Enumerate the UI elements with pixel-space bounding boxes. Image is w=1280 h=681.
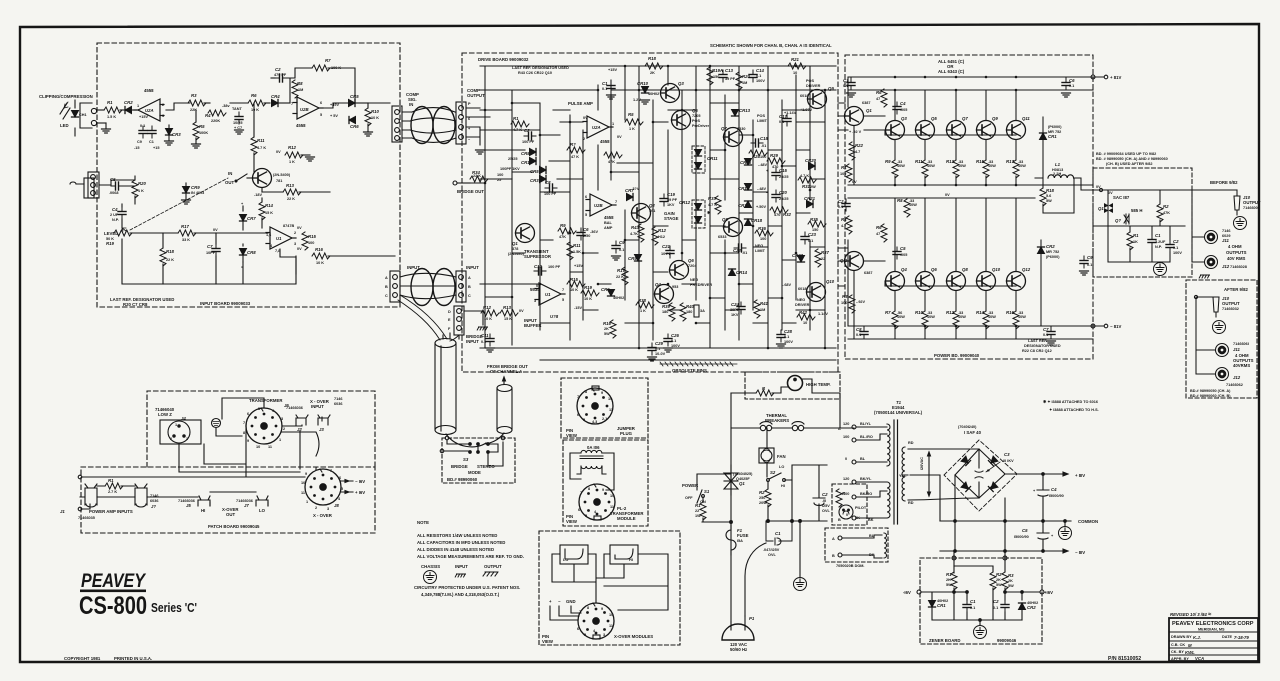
svg-text:(P6000): (P6000) (1048, 125, 1062, 129)
svg-text:R12: R12 (483, 305, 491, 310)
svg-text:OUT: OUT (226, 512, 235, 517)
svg-text:H12: H12 (658, 235, 665, 239)
LEVEL 50K pot R19 (114, 230, 132, 236)
svg-text:7: 7 (243, 421, 245, 425)
svg-text:C9: C9 (619, 240, 625, 245)
svg-text:C: C (385, 294, 388, 298)
svg-text:4: 4 (338, 497, 341, 501)
svg-text:4.7 K: 4.7 K (513, 128, 522, 132)
svg-text:R20 C7 CR8: R20 C7 CR8 (123, 302, 148, 307)
svg-text:RD: RD (908, 501, 914, 505)
svg-text:40H02: 40H02 (648, 92, 659, 96)
svg-text:INPUT: INPUT (311, 404, 324, 409)
svg-text:+15V: +15V (574, 264, 583, 268)
svg-text:TRANSFORMER: TRANSFORMER (249, 398, 283, 403)
svg-text:IN: IN (228, 171, 232, 176)
svg-text:1,6: 1,6 (266, 233, 271, 237)
svg-text:6: 6 (577, 413, 579, 417)
svg-text:+ .92 V: + .92 V (849, 130, 862, 134)
svg-text:100V: 100V (784, 340, 793, 344)
svg-text:R1: R1 (513, 116, 519, 121)
svg-text:180: 180 (686, 310, 692, 314)
svg-text:Q9: Q9 (828, 86, 834, 91)
svg-text:LO: LO (259, 508, 266, 513)
svg-text:FUSE: FUSE (737, 533, 749, 538)
svg-text:22: 22 (821, 257, 825, 261)
svg-text:RD: RD (908, 441, 914, 445)
resistor R17 33K (178, 230, 196, 236)
svg-text:X-OVER MODULES: X-OVER MODULES (614, 634, 653, 639)
svg-text:71466032: 71466032 (1222, 307, 1239, 311)
svg-text:R2: R2 (996, 572, 1002, 577)
svg-text:Q3: Q3 (901, 116, 907, 121)
x-over modules connector circle (578, 603, 614, 639)
svg-text:47 K: 47 K (571, 155, 579, 159)
svg-text:NEG: NEG (690, 278, 698, 282)
svg-text:0.1: 0.1 (1043, 333, 1048, 337)
svg-text:U2A: U2A (145, 108, 154, 113)
svg-text:R17: R17 (1006, 159, 1014, 164)
svg-text:1KV: 1KV (667, 203, 675, 207)
svg-text:5: 5 (320, 113, 322, 117)
svg-text:0: 0 (845, 457, 847, 461)
diode CR6 (349, 117, 356, 124)
cap C5 .0068 (111, 182, 123, 190)
svg-text:100: 100 (843, 435, 849, 439)
svg-text:2 UF: 2 UF (110, 213, 119, 217)
svg-text:2K: 2K (604, 327, 609, 331)
power board dashed outline (845, 55, 1093, 359)
svg-text:470: 470 (772, 165, 778, 169)
svg-text:R22: R22 (855, 143, 863, 148)
svg-text:INPUT BOARD 99009033: INPUT BOARD 99009033 (200, 301, 251, 306)
output gnd example (483, 572, 498, 576)
svg-text:R18: R18 (166, 249, 174, 254)
svg-text:POS: POS (806, 79, 814, 83)
svg-text:CR9: CR9 (191, 185, 200, 190)
resistor R5 1K (625, 119, 643, 125)
primary coil (887, 424, 890, 466)
resistor R14 15K vertical (259, 202, 265, 220)
svg-text:R18: R18 (1046, 188, 1054, 193)
bottom rail wires (122, 239, 296, 284)
svg-text:10W: 10W (897, 315, 905, 319)
svg-text:I5000/90: I5000/90 (1049, 494, 1064, 498)
svg-text:N.P.: N.P. (1155, 245, 1162, 249)
resistor R1 1K (1127, 232, 1133, 250)
comp sig in header (392, 106, 402, 142)
svg-text:5: 5 (584, 633, 586, 637)
svg-text:3: 3 (327, 507, 329, 511)
svg-text:22 K: 22 K (616, 275, 624, 279)
svg-text:5W: 5W (996, 583, 1002, 587)
svg-text:− 81V: − 81V (1110, 324, 1121, 329)
op-amp U2A 4558 (134, 99, 164, 121)
svg-text:470 PF: 470 PF (274, 73, 287, 77)
cap C8 100PF (545, 184, 557, 192)
svg-text:11: 11 (610, 505, 614, 509)
svg-text:R19: R19 (584, 285, 592, 290)
svg-text:Series 'C': Series 'C' (151, 600, 197, 615)
svg-text:0.1: 0.1 (481, 340, 486, 344)
svg-text:2.7 K: 2.7 K (108, 490, 117, 494)
resistor R11 1.5K (567, 242, 573, 260)
svg-text:Q9: Q9 (992, 116, 998, 121)
bridge diode top-left (961, 456, 971, 466)
svg-text:C7: C7 (207, 244, 213, 249)
cap C13 (719, 70, 727, 82)
circled ground psu (794, 578, 807, 591)
svg-text:STAGE: STAGE (664, 216, 679, 221)
op-amp U2B 4558 (293, 97, 323, 119)
svg-text:R17: R17 (617, 268, 625, 273)
svg-text:2: 2 (170, 437, 172, 441)
svg-text:C29: C29 (655, 341, 663, 346)
svg-text:6036: 6036 (150, 499, 158, 503)
svg-text:1: 1 (306, 500, 308, 504)
svg-text:-38v: -38v (222, 104, 230, 108)
svg-text:39 PF: 39 PF (725, 77, 736, 81)
cap C1 .047 125V OVL (766, 521, 792, 545)
svg-text:10W: 10W (958, 164, 966, 168)
circled ground zener (974, 626, 987, 639)
op-amp U1 5534 input buffer (535, 283, 565, 305)
svg-text:KWL: KWL (1185, 650, 1195, 655)
svg-text:C2: C2 (524, 128, 530, 133)
tant cap C7 (235, 112, 243, 124)
diode CR18 (745, 219, 752, 226)
svg-text:R38: R38 (638, 298, 646, 303)
svg-text:CR14: CR14 (736, 270, 748, 275)
svg-text:C4: C4 (1051, 487, 1057, 492)
svg-text:BD.# 98990050 (CH. A): BD.# 98990050 (CH. A) (1190, 389, 1231, 393)
cap C6 0.1 (1062, 78, 1070, 90)
cable curves into switch (446, 433, 504, 447)
svg-text:C9: C9 (1087, 255, 1093, 260)
svg-text:POWER BD. 99009040: POWER BD. 99009040 (934, 353, 980, 358)
resistor R2 2K 5W (990, 572, 996, 590)
svg-text:R1: R1 (841, 165, 847, 170)
svg-text:R13: R13 (286, 183, 294, 188)
svg-text:Q10: Q10 (992, 267, 1001, 272)
svg-text:R12: R12 (658, 228, 666, 233)
svg-text:C21: C21 (662, 244, 670, 249)
svg-text:R20: R20 (742, 74, 750, 79)
svg-text:-I6V: -I6V (903, 590, 911, 595)
svg-text:2: 2 (583, 137, 585, 141)
svg-text:(P6000): (P6000) (1046, 255, 1060, 259)
svg-text:+15V: +15V (139, 115, 148, 119)
svg-text:50/60 Hz: 50/60 Hz (730, 647, 747, 652)
svg-text:BD. # 98990050 (CH. A) AND #: BD. # 98990050 (CH. A) AND # 98990060 (1096, 157, 1168, 161)
svg-text:1KV: 1KV (731, 313, 739, 317)
svg-text:C5: C5 (1022, 528, 1028, 533)
svg-text:40H02: 40H02 (613, 296, 624, 300)
svg-text:11: 11 (609, 624, 613, 628)
svg-text:CR2: CR2 (1046, 244, 1055, 249)
svg-text:2/50: 2/50 (583, 234, 590, 238)
svg-text:R14: R14 (265, 203, 273, 208)
svg-text:10: 10 (301, 481, 305, 485)
svg-text:+: + (549, 599, 552, 604)
svg-text:C2: C2 (822, 492, 828, 497)
svg-text:DESIGNATOR USED: DESIGNATOR USED (1024, 344, 1061, 348)
resistor R4 4.7 (846, 216, 852, 234)
svg-text:9: 9 (601, 391, 603, 395)
svg-text:AFTER 9/82: AFTER 9/82 (1224, 287, 1248, 292)
svg-text:+15V: +15V (608, 68, 617, 72)
svg-text:HI: HI (629, 558, 633, 562)
svg-text:7: 7 (615, 200, 617, 204)
svg-text:+: + (1033, 489, 1036, 493)
svg-text:5.6: 5.6 (1046, 194, 1051, 198)
svg-text:R10: R10 (371, 109, 379, 114)
svg-text:0.1: 0.1 (756, 74, 761, 78)
svg-text:20W: 20W (759, 501, 767, 505)
svg-text:LOW Z: LOW Z (158, 412, 172, 417)
svg-text:4.7: 4.7 (841, 224, 846, 228)
svg-text:NEG: NEG (797, 298, 805, 302)
svg-text:R15: R15 (976, 159, 984, 164)
svg-text:10W: 10W (988, 164, 996, 168)
common rail (940, 520, 1071, 522)
svg-text:CR5: CR5 (350, 94, 359, 99)
svg-text:+15: +15 (153, 146, 159, 150)
resistor R35 150 (808, 221, 826, 227)
svg-text:0V: 0V (519, 309, 524, 313)
base bus top row (885, 130, 1016, 135)
svg-text:E: E (448, 318, 451, 322)
svg-text:7: 7 (330, 469, 332, 473)
svg-text:U1: U1 (545, 292, 551, 297)
svg-text:Q10: Q10 (826, 279, 835, 284)
cap C20 25/25 (772, 190, 780, 202)
svg-text:C8: C8 (856, 327, 862, 332)
svg-text:R16: R16 (603, 321, 611, 326)
cap C1 0.1 (847, 78, 855, 90)
resistor R10 10K (365, 108, 371, 126)
transistor Q8 6533 (724, 218, 743, 237)
bridge diode bottom-right (988, 482, 998, 492)
svg-text:10 K: 10 K (484, 317, 492, 321)
svg-text:C1: C1 (775, 531, 781, 536)
diode CR17 (745, 201, 752, 208)
main left vertical (730, 393, 732, 622)
svg-text:R6: R6 (251, 93, 257, 98)
svg-text:3: 3 (294, 242, 296, 246)
svg-text:I5000/90: I5000/90 (1014, 535, 1029, 539)
input header left (390, 271, 400, 302)
svg-text:9: 9 (601, 607, 603, 611)
svg-text:5: 5 (258, 407, 260, 411)
svg-text:R1: R1 (946, 572, 952, 577)
svg-text:CR18: CR18 (751, 218, 763, 223)
svg-text:LO: LO (563, 558, 568, 562)
ground at LED jack (102, 129, 111, 133)
svg-text:+.50V: +.50V (756, 205, 766, 209)
svg-text:6: 6 (339, 476, 341, 480)
svg-text:1 K: 1 K (629, 127, 635, 131)
svg-text:R15: R15 (308, 234, 316, 239)
svg-text:R13: R13 (946, 159, 954, 164)
svg-text:HI: HI (781, 484, 785, 488)
svg-text:− 8IV: − 8IV (1075, 550, 1085, 555)
svg-text:100 PF: 100 PF (522, 140, 535, 144)
bridge center line and cap C3 (978, 449, 980, 498)
svg-text:R14: R14 (976, 310, 984, 315)
svg-text:4558: 4558 (604, 215, 614, 220)
svg-text:5W: 5W (946, 583, 952, 587)
jack J10 after (1213, 297, 1219, 317)
svg-text:Q6: Q6 (931, 267, 937, 272)
wire CR2 to U2A (131, 109, 137, 111)
svg-text:6018: 6018 (800, 94, 808, 98)
zener CR1 40H02 (929, 601, 936, 608)
svg-text:PULSE AMP: PULSE AMP (568, 101, 593, 106)
svg-text:40VRMS: 40VRMS (1233, 363, 1250, 368)
svg-text:10W: 10W (958, 315, 966, 319)
op-amp U2A pulse amp (583, 116, 613, 138)
svg-text:S3: S3 (463, 457, 469, 462)
resistor R21 10 (788, 63, 806, 69)
svg-text:(CH. B) USED AFTER 9/82: (CH. B) USED AFTER 9/82 (1106, 162, 1152, 166)
svg-text:C8: C8 (545, 180, 551, 185)
resistor R?12 (652, 227, 658, 245)
cap C2 470PF (284, 78, 290, 103)
svg-text:J12: J12 (1222, 264, 1230, 269)
comp cable loom (411, 107, 455, 144)
svg-text:0.1: 0.1 (602, 87, 607, 91)
svg-text:I20VAC: I20VAC (920, 457, 924, 470)
op-amp U1 (266, 227, 296, 249)
diode CR15 (745, 159, 752, 166)
svg-text:4.7 K: 4.7 K (800, 174, 809, 178)
svg-text:1M: 1M (742, 81, 747, 85)
cap C1 0.1 (963, 600, 971, 612)
svg-text:LO: LO (779, 465, 784, 469)
breaker 2 (792, 425, 797, 430)
svg-text:15 K: 15 K (265, 211, 273, 215)
svg-text:39PF: 39PF (730, 308, 740, 312)
svg-text:+: + (241, 202, 244, 206)
svg-text:C22: C22 (733, 248, 741, 253)
resistor R18 2K (645, 63, 663, 69)
svg-text:+: + (766, 169, 769, 173)
svg-text:DRAWN BY: DRAWN BY (1171, 635, 1192, 639)
YEL centre tap to common (910, 475, 940, 521)
svg-text:CR7: CR7 (247, 216, 256, 221)
svg-text:1 K: 1 K (138, 189, 144, 193)
svg-text:6: 6 (585, 195, 587, 199)
svg-text:10PF: 10PF (206, 251, 216, 255)
input gnd example (455, 574, 465, 577)
svg-text:Q7: Q7 (962, 116, 968, 121)
svg-text:R11: R11 (573, 243, 581, 248)
svg-text:+ I6V: + I6V (355, 490, 365, 495)
svg-text:J?: J? (151, 504, 156, 509)
svg-text:BRIDGE: BRIDGE (451, 464, 468, 469)
svg-text:CK. BY: CK. BY (1171, 650, 1184, 654)
svg-text:Q8: Q8 (722, 217, 728, 222)
svg-text:+ 8IV: + 8IV (1075, 473, 1085, 478)
svg-text:ALL CAPACITORS IN MFD UNLESS N: ALL CAPACITORS IN MFD UNLESS NOTED (417, 540, 505, 545)
svg-text:4558: 4558 (296, 123, 306, 128)
cable cylinder large (435, 339, 456, 348)
R? 47K feedback (567, 147, 585, 153)
resistor R1 100 (846, 164, 852, 182)
cap C8 0.1 (860, 327, 868, 339)
svg-text:OBSOLETE PINS: OBSOLETE PINS (672, 368, 707, 373)
svg-text:DRIVER: DRIVER (806, 84, 821, 88)
svg-text:REVISED 10/ 3 /84 ≈: REVISED 10/ 3 /84 ≈ (1170, 612, 1212, 618)
resistor R2 250 20W (765, 489, 771, 507)
svg-text:C24: C24 (731, 302, 739, 307)
svg-text:R1: R1 (108, 478, 114, 483)
svg-text:C13: C13 (725, 68, 733, 73)
svg-text:Q?: Q? (1115, 218, 1121, 223)
svg-text:Q5: Q5 (692, 108, 698, 113)
svg-text:10: 10 (803, 321, 807, 325)
svg-text:4558: 4558 (144, 88, 154, 93)
svg-text:1: 1 (612, 122, 614, 126)
svg-text:40V RMS: 40V RMS (1227, 256, 1246, 261)
svg-text:Q4: Q4 (655, 282, 661, 287)
svg-text:5W: 5W (1008, 584, 1014, 588)
svg-text:7204: 7204 (688, 264, 697, 268)
svg-text:6: 6 (247, 412, 249, 416)
svg-text:10 K: 10 K (570, 288, 578, 292)
svg-text:✦ I3888 ATTACHED TO H.S.: ✦ I3888 ATTACHED TO H.S. (1049, 408, 1099, 412)
HI jack (198, 496, 210, 506)
resistor R42 10 (797, 314, 815, 320)
cap C23 0.1 (801, 232, 809, 244)
svg-text:HIGH TEMP.: HIGH TEMP. (806, 382, 831, 387)
svg-text:+ C7: + C7 (234, 126, 242, 130)
cap C9 bottom mid (1080, 256, 1088, 268)
svg-text:1.2V: 1.2V (633, 98, 641, 102)
tap wires (856, 427, 887, 518)
svg-text:OVL: OVL (822, 509, 830, 513)
svg-text:R42: R42 (799, 310, 807, 315)
svg-text:Q12: Q12 (1022, 267, 1031, 272)
svg-text:R1: R1 (695, 503, 701, 508)
svg-text:3: 3 (281, 417, 283, 421)
svg-text:10 K: 10 K (584, 297, 592, 301)
svg-text:0.1: 0.1 (993, 606, 998, 610)
diode CR21 (807, 201, 814, 208)
cap C5 .005 (893, 247, 901, 259)
svg-text:1.5K: 1.5K (573, 250, 581, 254)
resistor R36 100 (755, 230, 773, 236)
svg-text:-15V: -15V (574, 306, 582, 310)
svg-text:1: 1 (175, 423, 177, 427)
svg-text:-.3?V: -.3?V (630, 187, 640, 191)
svg-text:.0I IKV: .0I IKV (1002, 459, 1014, 463)
svg-text:U?8: U?8 (550, 314, 559, 319)
secondary coil (902, 447, 905, 501)
svg-text:.01: .01 (742, 251, 747, 255)
svg-text:10W: 10W (897, 164, 905, 168)
svg-text:1: 1 (137, 104, 139, 108)
svg-text:− I6V: − I6V (355, 479, 365, 484)
transistor Q1 input mute (253, 169, 272, 188)
svg-text:8: 8 (243, 431, 245, 435)
svg-text:C2: C2 (275, 67, 281, 72)
emitter resistors bottom row (892, 311, 898, 329)
svg-text:CIRCUITRY PROTECTED UNDER U.S.: CIRCUITRY PROTECTED UNDER U.S. PATENT NO… (414, 585, 520, 590)
lower bus (702, 521, 827, 522)
svg-text:IN: IN (409, 102, 413, 107)
